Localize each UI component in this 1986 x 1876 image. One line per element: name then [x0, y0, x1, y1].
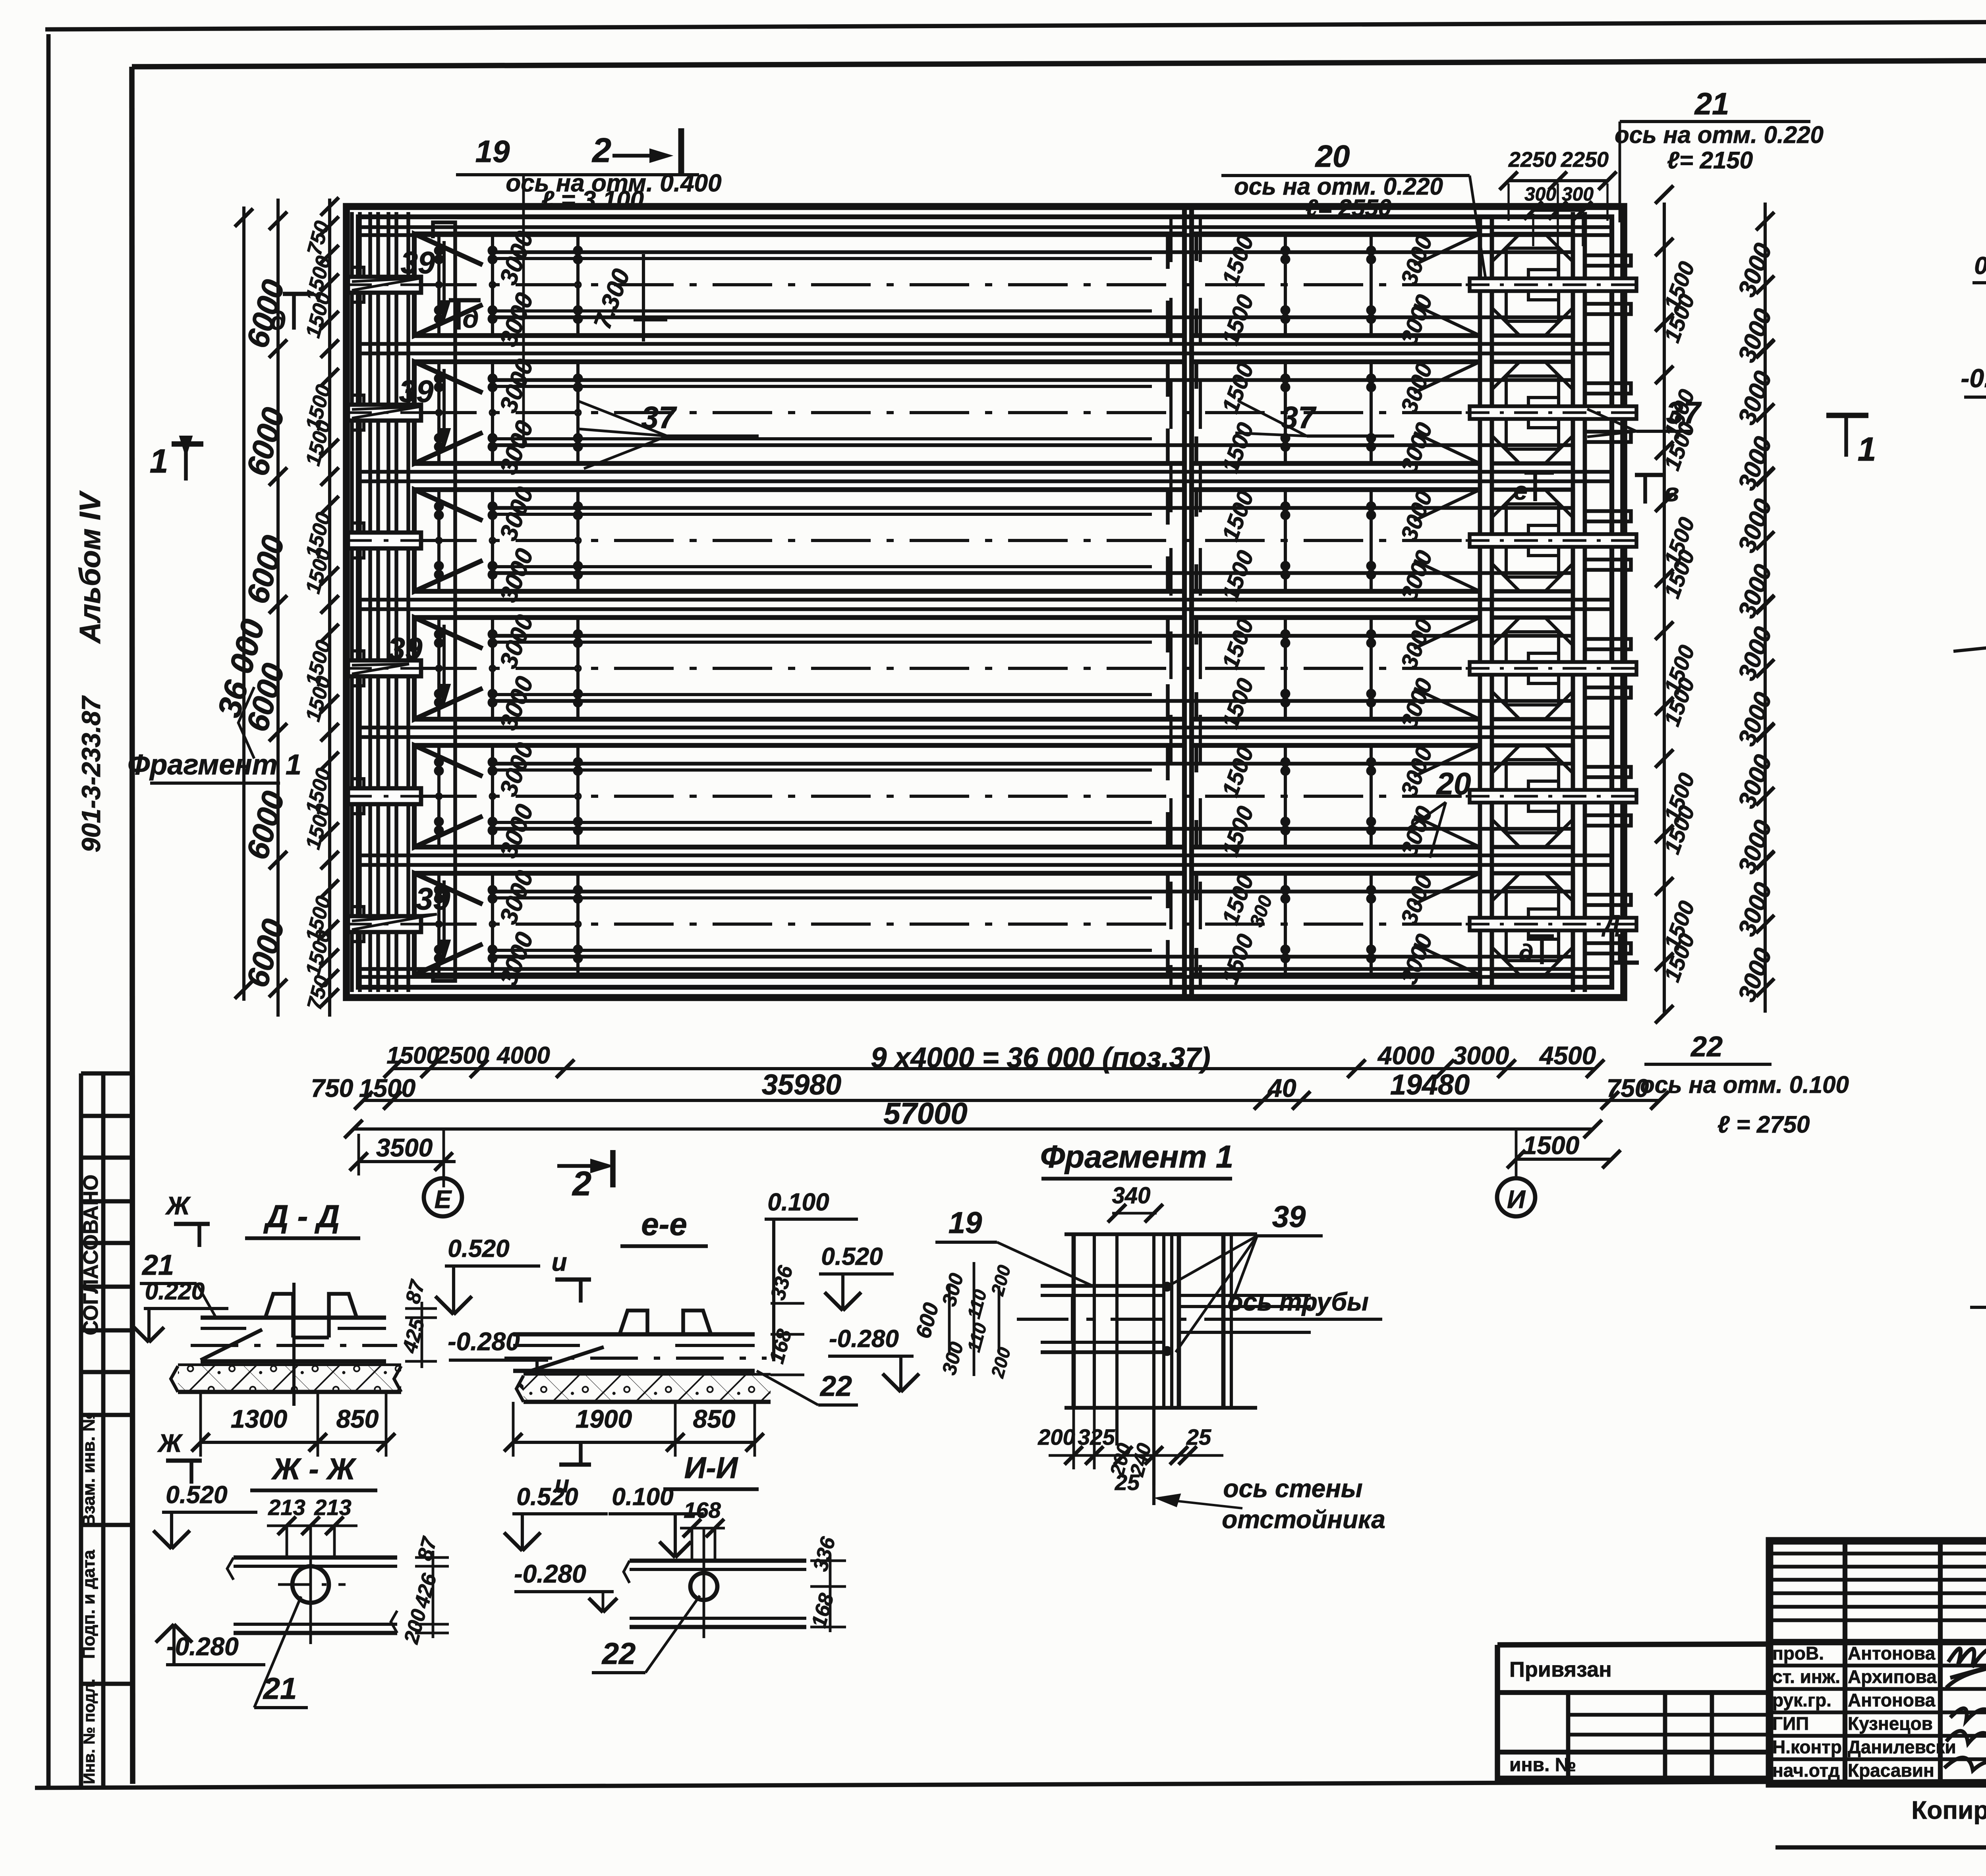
plan outline: [346, 207, 1624, 998]
section mark 2 bottom: [557, 1164, 608, 1168]
anchor tabs cell 6: [1585, 895, 1631, 905]
svg-text:Н.контр: Н.контр: [1772, 1737, 1842, 1757]
svg-text:Ж - Ж: Ж - Ж: [271, 1452, 357, 1486]
bottom dims fragment: [1072, 1408, 1075, 1469]
wall lines between cross cells: [1480, 342, 1585, 345]
cross bar cell 5: [1470, 790, 1636, 803]
bottom dim row 2: [363, 1099, 1660, 1102]
svg-text:600: 600: [911, 1300, 943, 1341]
svg-text:Данилевски: Данилевски: [1848, 1737, 1956, 1757]
svg-text:336: 336: [766, 1263, 798, 1303]
section mark d pair: [457, 300, 461, 330]
formwork cell 5: [1492, 745, 1573, 847]
svg-text:1500: 1500: [359, 1074, 415, 1102]
axis E dim 3500: [359, 1160, 456, 1163]
svg-text:750: 750: [311, 1074, 354, 1102]
cross bar cell 3: [1470, 534, 1636, 547]
left margin column boxes: [79, 1073, 83, 1786]
tank channel 2 rebar lines: [489, 378, 1573, 382]
mixer shaft cell 6: [1528, 909, 1559, 939]
svg-text:1300: 1300: [231, 1405, 287, 1433]
svg-text:4500: 4500: [1539, 1041, 1596, 1070]
svg-text:3000: 3000: [495, 289, 539, 350]
svg-text:3000: 3000: [1396, 675, 1437, 732]
rails I-I: [630, 1559, 806, 1563]
svg-text:39: 39: [416, 881, 450, 916]
svg-text:Копировал: Антипова: Копировал: Антипова: [1911, 1796, 1986, 1824]
section mark 1 right: [1826, 413, 1868, 418]
svg-text:0.100: 0.100: [612, 1483, 673, 1511]
svg-text:3000: 3000: [1733, 367, 1777, 428]
svg-text:57000: 57000: [883, 1097, 967, 1131]
svg-text:4000: 4000: [496, 1042, 550, 1069]
svg-text:отстойника: отстойника: [1222, 1505, 1385, 1534]
svg-text:3000: 3000: [1733, 879, 1777, 940]
svg-text:2500: 2500: [436, 1042, 489, 1069]
svg-text:3000: 3000: [1453, 1041, 1509, 1070]
wall verticals fragment: [1072, 1234, 1076, 1408]
svg-text:19: 19: [475, 134, 510, 169]
inner frame: [132, 59, 1986, 67]
svg-text:ℓ= 2550: ℓ= 2550: [1306, 195, 1391, 221]
svg-text:Инв. № подл.: Инв. № подл.: [81, 1679, 98, 1784]
svg-text:6000: 6000: [240, 404, 291, 479]
svg-text:22: 22: [819, 1370, 852, 1402]
svg-text:-0.280: -0.280: [514, 1559, 586, 1588]
anchor tabs cell 5: [1585, 767, 1631, 777]
svg-text:1500: 1500: [1217, 419, 1259, 476]
dividing wall 5 lines: [359, 853, 1613, 857]
svg-text:39: 39: [1272, 1200, 1306, 1234]
svg-text:3000: 3000: [1733, 239, 1777, 300]
svg-text:3000: 3000: [495, 673, 539, 733]
svg-text:325: 325: [1078, 1424, 1115, 1449]
svg-text:2: 2: [591, 131, 611, 170]
svg-text:Архипова: Архипова: [1848, 1666, 1937, 1687]
plan bottom rebar lines: [359, 967, 1613, 971]
svg-text:22: 22: [601, 1637, 636, 1671]
svg-text:1500: 1500: [1217, 488, 1259, 544]
channel right end chamfers: [1414, 234, 1480, 265]
dividing wall 4 lines: [359, 726, 1613, 730]
svg-text:2: 2: [572, 1165, 591, 1203]
svg-text:Д - Д: Д - Д: [263, 1199, 340, 1234]
pipe circle J-J: [292, 1566, 329, 1603]
svg-text:37: 37: [1281, 400, 1317, 435]
anchor tabs cell 4: [1585, 639, 1631, 649]
cross bar cell 1: [1470, 278, 1636, 291]
tank channel 5 rebar lines: [489, 762, 1573, 766]
anchor tabs cell 2: [1585, 383, 1631, 394]
svg-text:40: 40: [1267, 1074, 1296, 1102]
svg-text:3000: 3000: [1396, 232, 1437, 289]
tank channel 3 rebar lines: [489, 506, 1573, 510]
svg-text:1500: 1500: [1523, 1131, 1579, 1160]
svg-text:9 x4000 = 36 000 (поз.37): 9 x4000 = 36 000 (поз.37): [871, 1042, 1210, 1074]
svg-text:ℓ = 2750: ℓ = 2750: [1717, 1111, 1810, 1138]
svg-text:340: 340: [1112, 1183, 1151, 1208]
svg-text:Антонова: Антонова: [1848, 1643, 1936, 1664]
svg-text:3000: 3000: [1396, 360, 1437, 417]
svg-text:213: 213: [314, 1495, 351, 1520]
svg-text:ось на отм. 0.220: ось на отм. 0.220: [1615, 122, 1824, 148]
section J cut mark top: [174, 1222, 210, 1226]
svg-text:ось стены: ось стены: [1223, 1474, 1362, 1503]
svg-text:37: 37: [1666, 395, 1702, 430]
dividing wall 2 lines: [359, 470, 1613, 474]
svg-text:ст. инж.: ст. инж.: [1772, 1666, 1840, 1687]
svg-text:0.520: 0.520: [166, 1481, 227, 1509]
svg-text:3000: 3000: [495, 545, 539, 606]
svg-text:7.300: 7.300: [589, 265, 636, 332]
svg-text:Подп. и дата: Подп. и дата: [79, 1550, 99, 1659]
bumps D-D: [265, 1294, 293, 1318]
interior stirrup columns with dots: [437, 236, 440, 333]
formwork cell 1: [1492, 234, 1573, 336]
formwork cell 4: [1492, 618, 1573, 719]
svg-text:1500: 1500: [386, 1042, 439, 1069]
plan top rebar lines: [359, 225, 1613, 229]
svg-text:-0.280: -0.280: [448, 1327, 520, 1356]
svg-text:168: 168: [765, 1327, 796, 1366]
tank channel 1 rebar lines: [489, 250, 1573, 254]
svg-text:ГИП: ГИП: [1772, 1713, 1809, 1734]
svg-text:в: в: [1664, 478, 1679, 507]
svg-text:20: 20: [1436, 766, 1471, 801]
svg-text:1500: 1500: [1217, 232, 1259, 289]
tank channel 6 rebar lines: [489, 890, 1573, 894]
vertical gridline at 1620 with flag 7.300: [642, 254, 645, 342]
svg-text:д: д: [1518, 940, 1533, 966]
svg-text:3000: 3000: [1733, 623, 1777, 684]
formwork cell 2: [1492, 362, 1573, 463]
section J cut mark bottom: [166, 1459, 202, 1463]
svg-text:213: 213: [268, 1495, 305, 1520]
svg-text:0.700: 0.700: [1974, 252, 1986, 280]
section mark D pair bottom: [1530, 934, 1554, 939]
tank channel 6 outline: [414, 873, 483, 975]
right dimension chain 1500 pairs: [1663, 203, 1666, 1013]
svg-text:3000: 3000: [495, 928, 539, 989]
svg-text:336: 336: [809, 1534, 840, 1574]
svg-text:3500: 3500: [376, 1133, 433, 1162]
svg-text:19480: 19480: [1390, 1069, 1470, 1101]
signatures scribbles: [1944, 1648, 1986, 1780]
svg-text:Привязан: Привязан: [1509, 1658, 1612, 1681]
svg-text:1500: 1500: [1217, 291, 1259, 348]
svg-text:6000: 6000: [240, 787, 291, 863]
svg-text:СОГЛАСОВАНО: СОГЛАСОВАНО: [79, 1175, 102, 1336]
right cross column strip: [1478, 218, 1482, 986]
svg-text:110: 110: [963, 1320, 991, 1354]
tank channel 2 outline: [414, 362, 483, 463]
svg-text:168: 168: [684, 1498, 721, 1523]
mixer shaft cell 2: [1528, 398, 1559, 428]
cross bar cell 4: [1470, 662, 1636, 675]
svg-text:3000: 3000: [495, 417, 539, 478]
anchor tabs cell 3: [1585, 511, 1631, 521]
svg-text:426: 426: [410, 1571, 441, 1611]
svg-text:87: 87: [401, 1277, 430, 1306]
svg-text:300: 300: [1524, 184, 1556, 205]
tank channel 3 outline: [414, 490, 483, 591]
svg-text:200: 200: [987, 1345, 1014, 1380]
svg-text:20: 20: [1315, 139, 1350, 174]
right dimension chain 3000: [1764, 203, 1767, 1013]
svg-text:д: д: [463, 304, 479, 333]
svg-text:3000: 3000: [1396, 871, 1437, 928]
svg-text:35980: 35980: [762, 1069, 841, 1101]
sheet bottom border: [35, 1779, 1986, 1788]
projection drop lines: [1507, 183, 1509, 221]
slab taper D-D: [201, 1330, 262, 1360]
mixer shaft cell 3: [1528, 525, 1559, 556]
dividing wall 1 lines: [359, 342, 1613, 346]
left dimension chain 6000 bays: [276, 199, 280, 1017]
svg-text:-0.280: -0.280: [166, 1632, 238, 1661]
svg-text:21: 21: [1694, 86, 1729, 121]
svg-text:3000: 3000: [1396, 291, 1437, 348]
svg-text:Фрагмент 1: Фрагмент 1: [128, 749, 301, 781]
title block vertical dividers left table: [1843, 1541, 1847, 1784]
cross bar cell 2: [1470, 406, 1636, 419]
privyazan table: [1497, 1645, 1770, 1778]
formwork cell 6: [1492, 873, 1573, 975]
svg-text:И-И: И-И: [684, 1451, 738, 1485]
tank channel 4 rebar lines: [489, 634, 1573, 638]
dim 300 300: [1533, 209, 1583, 212]
pipe horizontals fragment: [1041, 1284, 1164, 1288]
svg-text:3000: 3000: [1396, 488, 1437, 544]
svg-text:1500: 1500: [1217, 743, 1259, 800]
svg-text:Антонова: Антонова: [1848, 1690, 1936, 1710]
pipe circle I-I: [690, 1573, 717, 1600]
centre line D-D: [292, 1283, 296, 1406]
left wall vertical bars: [350, 212, 354, 992]
svg-text:3000: 3000: [1733, 751, 1777, 812]
svg-text:1900: 1900: [576, 1405, 632, 1433]
svg-text:3000: 3000: [1396, 547, 1437, 604]
rails J-J: [234, 1556, 397, 1560]
svg-text:22: 22: [1690, 1031, 1723, 1063]
svg-text:Д: Д: [1601, 910, 1620, 937]
anchor plates pos.39: [348, 277, 421, 293]
svg-text:Красавин: Красавин: [1848, 1760, 1934, 1781]
svg-text:39: 39: [388, 631, 423, 666]
svg-text:39: 39: [401, 245, 435, 280]
axis circle И: [1497, 1178, 1535, 1216]
svg-text:39: 39: [399, 374, 434, 409]
sheet outer border: [45, 20, 1986, 29]
mixer shaft cell 5: [1528, 781, 1559, 811]
svg-text:0.520: 0.520: [821, 1243, 883, 1270]
axis circle E: [424, 1178, 462, 1216]
svg-text:25: 25: [1186, 1424, 1211, 1449]
svg-text:200: 200: [400, 1607, 431, 1646]
svg-text:37: 37: [641, 400, 677, 435]
svg-text:1500: 1500: [1217, 675, 1259, 732]
approval rows: [1770, 1664, 1986, 1668]
dim 2250 2250: [1509, 179, 1607, 182]
section mark e: [1533, 473, 1537, 501]
underline below kopiroval: [1775, 1845, 1986, 1850]
svg-text:168: 168: [807, 1591, 838, 1630]
svg-text:6000: 6000: [240, 915, 291, 991]
down arrows in wall: [442, 241, 446, 309]
slab e-e: [513, 1332, 755, 1337]
svg-text:1: 1: [1858, 430, 1876, 468]
svg-text:19: 19: [949, 1206, 982, 1240]
svg-text:1500: 1500: [1217, 803, 1259, 860]
svg-text:1500: 1500: [1217, 547, 1259, 604]
tank channel 4 outline: [414, 618, 483, 719]
section i cut mark: [555, 1278, 591, 1282]
svg-text:3000: 3000: [1733, 944, 1777, 1005]
svg-text:ℓ= 2150: ℓ= 2150: [1667, 147, 1753, 174]
svg-text:0.220: 0.220: [145, 1278, 205, 1305]
section i mark small: [559, 1463, 591, 1467]
svg-text:1500: 1500: [1217, 931, 1259, 988]
expansion joint lines: [1182, 207, 1187, 998]
cross bar cell 6: [1470, 918, 1636, 930]
left dimension chain 36000: [242, 207, 245, 1001]
mixer shaft cell 1: [1528, 270, 1559, 300]
svg-text:нач.отд: нач.отд: [1772, 1760, 1840, 1781]
svg-text:е-е: е-е: [641, 1206, 687, 1242]
channel end verticals at joint: [1166, 234, 1170, 269]
svg-text:3000: 3000: [1396, 931, 1437, 988]
svg-text:25: 25: [1115, 1470, 1140, 1495]
svg-text:И: И: [1507, 1185, 1526, 1214]
svg-text:Фрагмент 1: Фрагмент 1: [1040, 1139, 1233, 1174]
svg-text:0.520: 0.520: [448, 1235, 509, 1262]
svg-text:901-3-233.87: 901-3-233.87: [76, 695, 106, 852]
svg-text:200: 200: [1037, 1424, 1075, 1449]
left wall inner loop: [433, 222, 455, 981]
svg-text:ℓ = 3 100: ℓ = 3 100: [541, 186, 644, 214]
svg-text:0.520: 0.520: [516, 1483, 578, 1511]
svg-text:е: е: [1513, 477, 1528, 505]
svg-text:3000: 3000: [495, 801, 539, 861]
pipe inner box fragment: [1041, 1295, 1072, 1342]
mixer shaft cell 4: [1528, 653, 1559, 683]
fragment top break: [1064, 1232, 1257, 1236]
left dimension chain 1500/750: [328, 199, 331, 1017]
svg-text:ось трубы: ось трубы: [1227, 1287, 1368, 1316]
svg-text:200: 200: [987, 1263, 1014, 1298]
axis I dim 1500: [1516, 1158, 1611, 1161]
svg-text:ось на отм. 0.100: ось на отм. 0.100: [1640, 1071, 1849, 1098]
svg-text:Ж: Ж: [165, 1191, 191, 1220]
svg-text:Кузнецов: Кузнецов: [1848, 1713, 1933, 1734]
svg-text:2250: 2250: [1561, 148, 1609, 172]
svg-text:3000: 3000: [1733, 495, 1777, 556]
base D-D: [178, 1363, 401, 1367]
svg-text:3000: 3000: [1396, 743, 1437, 800]
svg-text:Е: Е: [435, 1185, 452, 1214]
svg-text:и: и: [551, 1248, 567, 1276]
svg-text:300: 300: [1562, 184, 1594, 205]
bottom dim row 3 57000: [354, 1127, 1593, 1131]
svg-text:2250: 2250: [1508, 148, 1556, 172]
tank channel 5 outline: [414, 745, 483, 847]
svg-text:рук.гр.: рук.гр.: [1772, 1690, 1831, 1710]
svg-text:Взам. инв. №: Взам. инв. №: [79, 1412, 99, 1527]
title block header rows: [1770, 1552, 1986, 1556]
svg-text:д: д: [270, 306, 286, 335]
svg-text:Альбом IV: Альбом IV: [73, 490, 106, 644]
svg-text:проВ.: проВ.: [1772, 1643, 1824, 1664]
dividing wall 3 lines: [359, 598, 1613, 602]
svg-text:3000: 3000: [1396, 419, 1437, 476]
svg-text:300: 300: [938, 1339, 968, 1377]
anchor tabs cell 1: [1585, 255, 1631, 266]
svg-text:3000: 3000: [1396, 616, 1437, 672]
formwork cell 3: [1492, 490, 1573, 591]
slab D-D: [201, 1316, 386, 1320]
svg-text:инв. №: инв. №: [1509, 1754, 1576, 1776]
svg-text:300: 300: [938, 1271, 968, 1309]
slab taper e-e: [524, 1347, 604, 1373]
base e-e: [524, 1373, 771, 1377]
svg-text:425: 425: [398, 1316, 429, 1356]
svg-text:Ж: Ж: [157, 1429, 183, 1457]
svg-text:850: 850: [336, 1405, 379, 1433]
tank channel 1 outline: [414, 234, 483, 336]
svg-text:4000: 4000: [1377, 1041, 1434, 1070]
svg-text:21: 21: [141, 1249, 174, 1281]
title block outer: [1770, 1541, 1986, 1784]
bumps e-e: [620, 1310, 647, 1334]
svg-text:0.100: 0.100: [767, 1189, 829, 1216]
svg-text:850: 850: [693, 1405, 736, 1433]
svg-text:-0.280: -0.280: [829, 1325, 899, 1353]
svg-text:6000: 6000: [240, 532, 291, 607]
svg-text:-0.280: -0.280: [1961, 363, 1986, 393]
svg-text:1: 1: [150, 442, 168, 480]
svg-text:1500: 1500: [1217, 616, 1259, 672]
bottom dim row 1: [393, 1067, 1595, 1070]
